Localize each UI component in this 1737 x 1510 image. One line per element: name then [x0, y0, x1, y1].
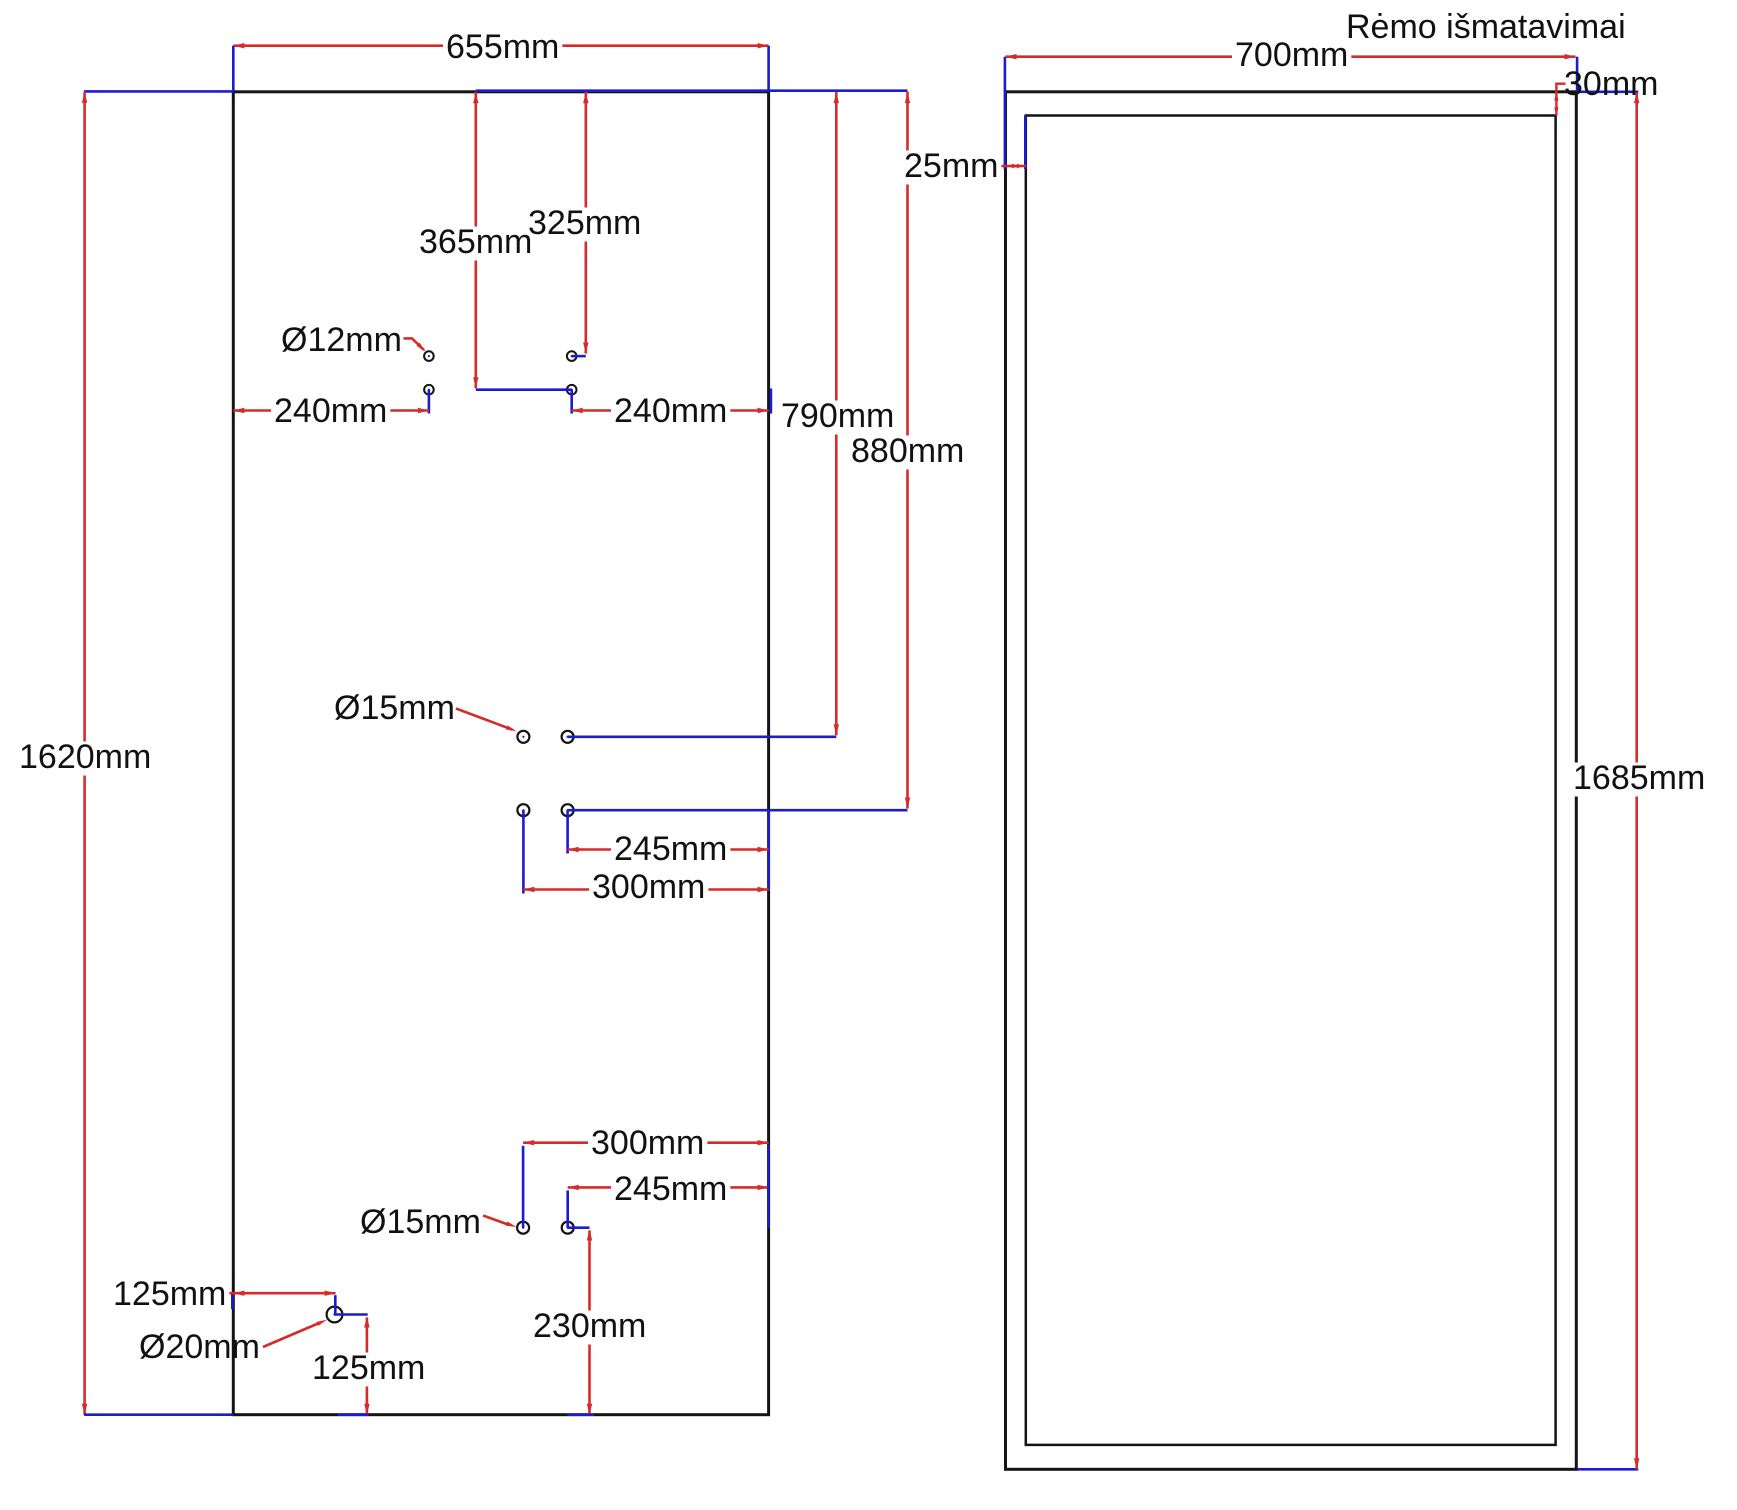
dimension 300mm lower [523, 1124, 769, 1228]
dimension 300mm mid [523, 810, 768, 906]
svg-text:245mm: 245mm [614, 1170, 727, 1208]
hole Ø15 mid upper-right [562, 731, 574, 743]
extension line: outer top-right corner to 1685mm dimension [1577, 91, 1638, 94]
svg-text:240mm: 240mm [614, 392, 727, 430]
hole Ø12 upper-left [424, 351, 434, 361]
svg-text:240mm: 240mm [274, 392, 387, 430]
svg-text:880mm: 880mm [851, 432, 964, 470]
dimension 1620mm [16, 92, 154, 1415]
extension line: lower-right hole to 230mm dimension [568, 1226, 590, 1229]
dimension 125mm top [110, 1275, 336, 1315]
dimension 245mm mid [568, 810, 769, 868]
svg-text:1620mm: 1620mm [19, 738, 151, 776]
label Ø15mm lower with leader [360, 1203, 517, 1241]
dimension 30mm [1554, 65, 1658, 116]
dimension 25mm [901, 147, 1027, 185]
extension line: outer bottom-right corner to 1685mm dimension [1577, 1468, 1638, 1471]
svg-text:300mm: 300mm [592, 868, 705, 906]
svg-text:Ø20mm: Ø20mm [139, 1328, 260, 1366]
dimension 230mm [530, 1230, 649, 1415]
dimension 1685mm [1570, 92, 1708, 1469]
hole Ø12 lower-left [424, 385, 434, 395]
dimension 790mm [778, 92, 897, 736]
hole Ø15 mid lower-left [517, 804, 529, 816]
hole Ø20 [327, 1307, 343, 1323]
svg-text:325mm: 325mm [528, 204, 641, 242]
left panel outline [233, 92, 768, 1415]
hole Ø12 upper-right [567, 351, 577, 361]
dimension 125mm bottom [309, 1317, 428, 1415]
svg-text:790mm: 790mm [781, 397, 894, 435]
svg-text:245mm: 245mm [614, 830, 727, 868]
hole Ø15 mid upper-left [517, 731, 529, 743]
dimension 245mm lower [568, 1170, 769, 1228]
label Ø12mm with leader [281, 321, 426, 359]
svg-text:365mm: 365mm [419, 223, 532, 261]
extension line: mid lower hole row to 880mm dimension [568, 809, 908, 812]
label Ø15mm mid with leader [334, 689, 517, 731]
extension line: top edge overlay toward 790/880 dimensions [476, 89, 908, 92]
svg-text:125mm: 125mm [113, 1275, 226, 1313]
dimension 325mm [528, 92, 641, 354]
svg-text:Ø15mm: Ø15mm [360, 1203, 481, 1241]
dimension 700mm [1006, 36, 1578, 92]
frame inner outline [1026, 116, 1556, 1445]
extension line: top-left hole pair to 365mm dimension [476, 388, 572, 391]
svg-text:Ø12mm: Ø12mm [281, 321, 402, 359]
frame outer outline [1006, 92, 1577, 1470]
extension line: panel right edge overlay (lower group) [767, 1145, 770, 1228]
svg-text:655mm: 655mm [446, 28, 559, 66]
extension line: top edge to 1620mm dimension [84, 90, 233, 93]
dimension 655mm [233, 28, 768, 92]
svg-text:230mm: 230mm [533, 1307, 646, 1345]
extension line: bottom edge to 1620mm dimension [84, 1413, 233, 1416]
svg-text:25mm: 25mm [904, 147, 998, 185]
extension tick: bottom edge below 125mm dimension [338, 1413, 369, 1416]
dimension 240mm left [233, 390, 429, 430]
hole Ø15 lower-left [517, 1222, 529, 1234]
label Ø20mm with leader [139, 1320, 327, 1366]
svg-text:1685mm: 1685mm [1573, 759, 1705, 797]
svg-text:Ø15mm: Ø15mm [334, 689, 455, 727]
svg-text:30mm: 30mm [1564, 65, 1658, 103]
extension tick: bottom edge below 230mm dimension [568, 1413, 595, 1416]
extension line: panel right edge overlay (mid group) [767, 810, 770, 891]
hole Ø15 lower-right [562, 1222, 574, 1234]
extension line: outer left edge overlay to 25mm dimension [1004, 57, 1007, 169]
dimension 240mm right [572, 389, 771, 431]
svg-text:125mm: 125mm [312, 1349, 425, 1387]
svg-text:Rėmo išmatavimai: Rėmo išmatavimai [1346, 8, 1626, 46]
svg-text:700mm: 700mm [1235, 36, 1348, 74]
hole Ø15 mid lower-right [562, 804, 574, 816]
svg-text:300mm: 300mm [591, 1124, 704, 1162]
extension line: inner left edge overlay to 25mm dimension [1024, 116, 1027, 170]
dimension 880mm [848, 92, 967, 809]
extension line: Ø20 hole to 125mm bottom dimension [335, 1313, 368, 1316]
extension line: top-right hole to 325mm dimension [572, 355, 586, 358]
extension line: mid hole row to 790mm dimension [568, 735, 837, 738]
dimension 365mm [416, 92, 535, 388]
hole Ø12 lower-right [567, 385, 577, 395]
